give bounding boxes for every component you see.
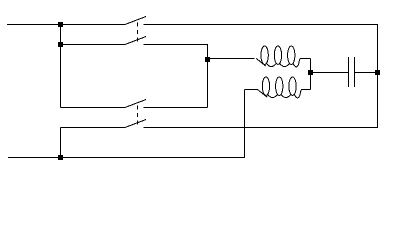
wire: switch S2 pole B to right rail: [144, 127, 378, 129]
wire: top rail left segment: [7, 24, 125, 26]
wire: N5 to capacitor C1: [311, 72, 349, 74]
wire: middle riser column: [207, 45, 209, 108]
wire: N2 to switch S1 pole B: [61, 44, 126, 46]
wire: top rail right segment: [144, 24, 379, 26]
node N6 junction: [375, 70, 380, 75]
capacitor C1 left plate: [348, 57, 350, 87]
switch S2 gang link (dashed): [137, 106, 139, 125]
wire: switch S2 pole A to riser: [144, 107, 208, 109]
node N3 junction: [58, 155, 63, 160]
wire: left column to switch S2 pole A: [61, 107, 126, 109]
switch S1 pole B blade: [125, 37, 146, 45]
wire: L2 to node N5: [310, 73, 312, 90]
wire: L1 to node N5: [310, 59, 312, 73]
wire: bottom rail: [8, 157, 245, 159]
wire: bottom riser to inductor L2: [244, 90, 246, 159]
switch S1 gang link (dashed): [137, 23, 139, 42]
wire: corner to switch S2 pole B: [61, 127, 126, 129]
inductor L1: [256, 46, 310, 67]
switch S1 pole A blade: [125, 17, 146, 25]
switch S2 pole B blade: [125, 120, 146, 128]
switch S2 pole A blade: [125, 100, 146, 108]
node N4 junction: [205, 57, 210, 62]
node N5 junction: [308, 70, 313, 75]
wire: lower left column: [60, 128, 62, 159]
node N1 junction: [58, 22, 63, 27]
wire: right rail vertical: [377, 25, 379, 129]
wire: S1 pole B to middle riser: [144, 44, 209, 46]
wire: C1 to node N6: [355, 72, 378, 74]
wire: N4 to inductor L1: [208, 58, 255, 60]
node N2 junction: [58, 42, 63, 47]
capacitor C1 right plate: [354, 57, 356, 87]
inductor L2: [245, 77, 311, 98]
wire: left column N1 to switch S2a level: [60, 25, 62, 108]
